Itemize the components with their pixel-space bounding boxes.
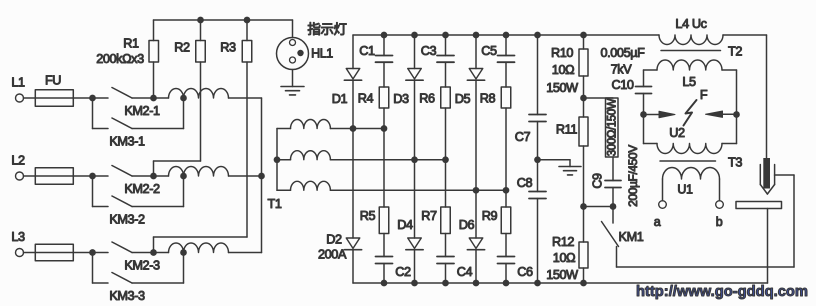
diode D5 <box>475 35 477 69</box>
svg-text:L3: L3 <box>11 230 25 244</box>
wire phase line 3 <box>330 189 506 191</box>
svg-text:KM3-3: KM3-3 <box>109 289 145 303</box>
wire coil 1 output <box>229 97 262 99</box>
svg-text:150W: 150W <box>546 81 578 95</box>
node R10 R11 <box>580 95 587 102</box>
svg-text:R3: R3 <box>220 41 236 55</box>
svg-text:KM2-3: KM2-3 <box>124 259 160 273</box>
T1 secondary winding 3 <box>277 189 291 191</box>
svg-text:L5: L5 <box>682 75 696 89</box>
capacitor C3 <box>445 35 447 56</box>
wire KM2-2 to coil <box>132 175 154 177</box>
T1 secondary winding 2 <box>277 159 291 161</box>
transformer T3 core <box>660 160 716 162</box>
electrode <box>763 158 770 189</box>
svg-text:R1: R1 <box>123 37 139 51</box>
resistor R12 <box>583 207 585 243</box>
resistor R9 <box>505 190 507 207</box>
node coil start 1 <box>150 95 157 102</box>
svg-text:7kV: 7kV <box>611 63 633 77</box>
node KM1 top <box>610 203 617 210</box>
svg-text:C5: C5 <box>481 44 497 58</box>
svg-text:200µF/450V: 200µF/450V <box>626 145 640 207</box>
svg-text:指示灯: 指示灯 <box>307 22 346 37</box>
node top rail <box>503 32 510 39</box>
svg-text:HL1: HL1 <box>311 47 333 61</box>
wire workpiece to bottom rail <box>767 209 769 284</box>
svg-text:R11: R11 <box>556 123 577 137</box>
svg-text:C7: C7 <box>515 130 531 144</box>
svg-text:T2: T2 <box>728 45 742 59</box>
node phase R6 <box>442 156 449 163</box>
svg-text:U1: U1 <box>677 183 693 197</box>
node R2 rail <box>197 17 204 24</box>
resistor R1 <box>153 20 155 41</box>
diode D6 <box>475 190 477 238</box>
terminal L1 <box>16 94 24 102</box>
resistor R2 <box>200 20 202 41</box>
diode D4 <box>414 160 416 238</box>
svg-text:D6: D6 <box>459 218 475 232</box>
wire R3 to tap row3 <box>154 236 248 238</box>
wire primary star point <box>261 98 263 253</box>
node top rail <box>534 32 541 39</box>
wire rectifier top rail <box>353 34 659 36</box>
resistor 300Ω/150W <box>584 97 614 99</box>
wire R2 to tap row2 <box>154 160 201 162</box>
svg-text:C8: C8 <box>517 176 533 190</box>
wire L2 to junction <box>24 175 109 177</box>
node top rail <box>381 32 388 39</box>
node tap 1 <box>180 95 187 102</box>
node bottom rail <box>442 280 449 287</box>
svg-text:L2: L2 <box>11 154 25 168</box>
svg-text:R2: R2 <box>174 41 190 55</box>
T1 secondary winding 1 <box>277 128 291 130</box>
svg-text:R8: R8 <box>480 92 496 106</box>
svg-text:10Ω: 10Ω <box>552 63 574 77</box>
resistor R4 <box>383 62 385 87</box>
fuse FU2 <box>35 168 73 185</box>
svg-text:200kΩx3: 200kΩx3 <box>96 52 144 66</box>
node top rail <box>411 32 418 39</box>
wire bottom rail <box>353 282 768 284</box>
wire KM2-3 to coil <box>132 252 154 254</box>
svg-text:R7: R7 <box>421 209 437 223</box>
node phase R4 <box>381 125 388 132</box>
node bottom rail <box>503 280 510 287</box>
node phase R8 <box>503 187 510 194</box>
svg-text:T3: T3 <box>728 156 742 170</box>
svg-text:R9: R9 <box>482 209 498 223</box>
diode D3 <box>414 35 416 69</box>
svg-text:R10: R10 <box>551 46 573 60</box>
contact KM1 <box>612 207 614 224</box>
terminal L2 <box>16 172 24 180</box>
capacitor C8 <box>537 160 539 192</box>
spark bolt <box>684 100 697 126</box>
svg-text:R6: R6 <box>419 92 435 106</box>
svg-text:D3: D3 <box>393 92 409 106</box>
node phase D1 <box>350 125 357 132</box>
svg-text:D2: D2 <box>326 233 342 247</box>
terminal L3 <box>16 249 24 257</box>
wire phase line 1 <box>330 128 384 130</box>
wire coil 3 output <box>229 252 262 254</box>
svg-text:b: b <box>716 215 723 229</box>
svg-text:L4 Uc: L4 Uc <box>675 17 707 31</box>
wire KM1 to electrode <box>617 266 795 268</box>
transformer T1 secondary bus <box>276 129 278 191</box>
svg-text:C4: C4 <box>457 265 473 279</box>
T1 primary winding phase 2 <box>154 175 169 177</box>
svg-text:U2: U2 <box>669 126 685 140</box>
wire C9 bottom <box>584 206 614 208</box>
node secondary mid <box>274 156 281 163</box>
node top rail <box>442 32 449 39</box>
terminal a <box>662 179 664 201</box>
fuse FU3 <box>35 244 73 261</box>
node bottom rail <box>381 280 388 287</box>
node junction L3 <box>89 249 96 256</box>
capacitor C6 <box>505 234 507 257</box>
capacitor C1 <box>383 35 385 56</box>
capacitor C4 <box>445 234 447 257</box>
ground HL1 <box>292 70 294 87</box>
svg-text:C1: C1 <box>359 44 375 58</box>
svg-text:KM1: KM1 <box>619 230 644 244</box>
svg-text:D5: D5 <box>455 92 471 106</box>
svg-text:C6: C6 <box>517 265 533 279</box>
svg-text:F: F <box>700 88 708 102</box>
svg-text:0.005µF: 0.005µF <box>600 46 645 60</box>
svg-text:200A: 200A <box>318 248 347 262</box>
svg-text:D4: D4 <box>397 218 413 232</box>
node phase D3 <box>411 156 418 163</box>
capacitor C10 <box>643 70 645 87</box>
node tap 3 <box>180 249 187 256</box>
node bottom rail <box>411 280 418 287</box>
contact KM3-3 branch <box>92 253 94 284</box>
svg-text:T1: T1 <box>267 197 281 211</box>
svg-text:R5: R5 <box>360 209 376 223</box>
node C7 C8 midpoint <box>537 122 539 160</box>
inductor L4 <box>659 35 723 45</box>
svg-text:KM3-1: KM3-1 <box>109 135 145 149</box>
terminal b <box>719 179 721 201</box>
wire L1 to junction <box>24 97 109 99</box>
node bottom rail <box>473 280 480 287</box>
node tap 2 <box>180 173 187 180</box>
svg-text:R4: R4 <box>358 92 374 106</box>
fuse FU1 <box>35 90 73 107</box>
spark gap F <box>644 114 660 116</box>
node bottom rail <box>534 280 541 287</box>
contact KM2-1 <box>112 88 132 99</box>
wire top-left rail <box>154 19 293 21</box>
capacitor C7 <box>537 35 539 115</box>
contact KM3-2 branch <box>92 176 94 207</box>
resistor R7 <box>445 160 447 207</box>
svg-text:300Ω/150W: 300Ω/150W <box>607 98 619 156</box>
electrode holder <box>759 165 761 185</box>
svg-text:http://www.go-gddq.com: http://www.go-gddq.com <box>636 283 808 300</box>
svg-text:KM2-2: KM2-2 <box>124 182 160 196</box>
svg-text:KM3-2: KM3-2 <box>109 213 145 227</box>
T1 primary winding phase 3 <box>154 252 169 254</box>
svg-text:D1: D1 <box>332 92 348 106</box>
diode D1 <box>352 35 354 69</box>
node junction L1 <box>89 95 96 102</box>
diode D2 <box>352 129 354 239</box>
wire L4 to electrode <box>723 34 767 36</box>
node junction L2 <box>89 173 96 180</box>
capacitor C2 <box>383 234 385 257</box>
wire phase line 2 <box>330 159 445 161</box>
resistor R6 <box>445 62 447 87</box>
svg-text:R12: R12 <box>552 235 574 249</box>
svg-text:C10: C10 <box>611 78 633 92</box>
node top rail <box>580 32 587 39</box>
transformer T2 core <box>661 50 721 52</box>
capacitor C9 <box>612 157 614 181</box>
svg-text:KM2-1: KM2-1 <box>124 104 160 118</box>
svg-text:FU: FU <box>45 74 61 88</box>
capacitor C5 <box>505 35 507 56</box>
node spark right <box>733 111 740 118</box>
indicator lamp HL1 <box>292 20 294 38</box>
node top rail <box>473 32 480 39</box>
svg-text:C2: C2 <box>395 265 411 279</box>
svg-text:a: a <box>654 215 661 229</box>
resistor R3 <box>246 20 248 41</box>
contact KM2-3 <box>112 242 132 253</box>
resistor R11 <box>583 98 585 117</box>
wire L3 to junction <box>24 252 109 254</box>
svg-text:C9: C9 <box>591 173 605 189</box>
ground midpoint <box>538 159 571 161</box>
node R3 rail <box>244 17 251 24</box>
inductor L5 <box>644 69 658 71</box>
node spark left <box>640 111 647 118</box>
svg-text:150W: 150W <box>546 268 578 282</box>
node phase D5 <box>473 187 480 194</box>
inductor U1 <box>663 168 720 180</box>
svg-text:C3: C3 <box>421 44 437 58</box>
node coil start 2 <box>150 173 157 180</box>
resistor R8 <box>505 62 507 87</box>
svg-text:L1: L1 <box>11 76 25 90</box>
node coil start 3 <box>150 249 157 256</box>
wire loop right edge <box>736 70 738 144</box>
T1 primary winding phase 1 <box>154 97 169 99</box>
resistor R5 <box>383 129 385 208</box>
node star <box>258 173 265 180</box>
svg-text:10Ω: 10Ω <box>553 251 575 265</box>
wire to electrode <box>766 35 768 160</box>
contact KM3-1 branch <box>92 98 94 129</box>
contact KM2-2 <box>112 166 132 177</box>
resistor R10 <box>583 35 585 49</box>
inductor U2 <box>644 143 658 145</box>
wire coil 2 output <box>229 175 262 177</box>
workpiece <box>736 202 782 209</box>
wire KM2-1 to coil <box>132 97 154 99</box>
node R11 bottom <box>580 203 587 210</box>
node bottom rail <box>580 280 587 287</box>
